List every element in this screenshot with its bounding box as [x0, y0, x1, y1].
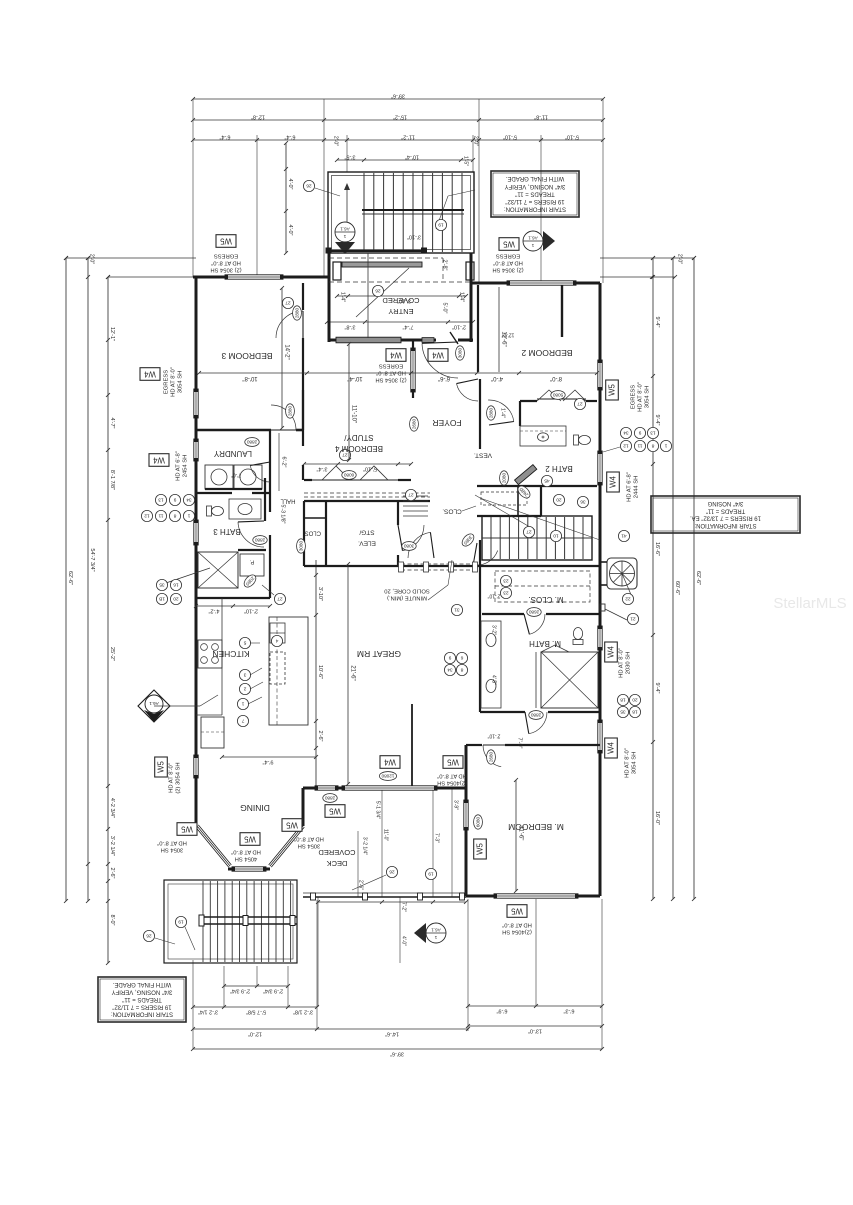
svg-text:STAIR INFORMATION:: STAIR INFORMATION: — [111, 1011, 173, 1017]
svg-text:2'-10": 2'-10" — [452, 323, 466, 329]
svg-text:A6.1: A6.1 — [431, 927, 441, 932]
dim right 2'-0 top — [600, 257, 694, 259]
svg-text:27: 27 — [526, 529, 532, 535]
entry stair leader 19 — [436, 196, 448, 229]
dim bedroom2 height 12'-6 — [498, 287, 500, 372]
hall west wall — [269, 430, 271, 512]
svg-text:1'-4": 1'-4" — [459, 292, 465, 302]
svg-text:HD AT 6'-8": HD AT 6'-8" — [176, 451, 182, 481]
svg-text:3/4" NOSING, VERIFY: 3/4" NOSING, VERIFY — [112, 989, 173, 995]
svg-text:4'-0": 4'-0" — [287, 179, 293, 190]
svg-text:5080: 5080 — [552, 393, 563, 398]
opening 6080 study — [312, 479, 398, 481]
svg-text:9: 9 — [638, 430, 641, 436]
kitchen island — [269, 617, 308, 725]
svg-text:STAIR INFORMATION:: STAIR INFORMATION: — [694, 522, 756, 528]
dim 62'-6 right outer — [693, 258, 695, 899]
spec 3054 right2 rot — [625, 748, 638, 778]
svg-text:BATH 2: BATH 2 — [545, 464, 573, 473]
window bath3 west — [194, 520, 198, 545]
svg-text:(2)4054 SH: (2)4054 SH — [502, 928, 532, 934]
svg-text:A6.1: A6.1 — [149, 701, 159, 706]
dim deck stairs 2'-9 3/4 x2 — [224, 985, 288, 987]
svg-text:16'-6": 16'-6" — [654, 542, 660, 556]
svg-text:6080: 6080 — [475, 816, 480, 827]
svg-text:HD AT 8'-0": HD AT 8'-0" — [171, 367, 177, 397]
m.bath sinks — [486, 634, 496, 647]
svg-text:M. CLOS.: M. CLOS. — [528, 595, 563, 604]
svg-text:35: 35 — [620, 709, 626, 715]
entry dashed lines — [329, 257, 443, 259]
leader deck 26 — [352, 875, 386, 890]
note circles m.bath shower — [617, 694, 628, 705]
note circles deck — [386, 866, 397, 877]
interior stair leaders — [475, 495, 535, 530]
closet shelf dashed clos — [481, 492, 527, 505]
svg-text:HD AT 8'-0": HD AT 8'-0" — [619, 648, 625, 678]
spec deck door — [437, 772, 467, 785]
dim left 2'-0 top — [66, 257, 196, 259]
svg-text:2'-6": 2'-6" — [109, 868, 115, 879]
svg-text:3080: 3080 — [457, 347, 462, 358]
dim bedroom4 row 3'-4/5'-10 — [304, 463, 411, 465]
window master bath east — [598, 626, 602, 650]
entry stair arrow — [346, 185, 348, 246]
svg-text:41: 41 — [621, 533, 627, 539]
svg-text:11'-6": 11'-6" — [517, 826, 523, 841]
svg-text:2: 2 — [243, 686, 246, 692]
svg-text:P.: P. — [249, 559, 254, 565]
svg-text:9'-4": 9'-4" — [654, 317, 660, 328]
svg-text:4'-0": 4'-0" — [401, 936, 407, 946]
bath2 5080 mulled window — [537, 398, 586, 400]
svg-text:W4: W4 — [606, 645, 615, 657]
svg-text:W5: W5 — [510, 907, 522, 916]
dim extension lines top — [192, 99, 194, 277]
svg-text:3'-10": 3'-10" — [317, 587, 323, 601]
svg-text:3054 SH: 3054 SH — [161, 846, 184, 852]
svg-text:9'-4": 9'-4" — [654, 683, 660, 694]
svg-text:2'-0": 2'-0" — [89, 254, 95, 264]
dim kitchen column 3'-10/10'-6/2'-6 — [315, 560, 317, 786]
m.bath tub deco — [535, 652, 537, 708]
great room door arc — [408, 532, 430, 558]
svg-text:BEDROOM 3: BEDROOM 3 — [221, 351, 272, 361]
svg-text:W5: W5 — [502, 240, 514, 249]
svg-text:18: 18 — [632, 709, 638, 715]
dim entry-left 4'-0/4'-0 — [285, 143, 287, 253]
spec 3054 left rot — [164, 367, 184, 397]
svg-text:W5: W5 — [243, 835, 255, 844]
foyer west wall — [412, 340, 414, 348]
wall laundry/bath3 — [196, 492, 232, 494]
dim row 3'-5/10'-4 — [337, 159, 473, 161]
note circle 27 pantry — [274, 593, 285, 604]
dim entry small row — [337, 295, 466, 297]
entry egress marker — [535, 244, 537, 246]
svg-text:31: 31 — [454, 607, 460, 613]
svg-text:HD AT 8'-0": HD AT 8'-0" — [211, 259, 241, 265]
bedroom2 door arc — [488, 400, 514, 422]
window (2)4054 master bedroom south — [494, 894, 578, 898]
bay east wall — [302, 788, 305, 826]
svg-text:2680: 2680 — [411, 418, 416, 429]
svg-text:HD AT 8'-0": HD AT 8'-0" — [625, 748, 631, 778]
foyer east wall / bedroom2 west — [477, 285, 479, 372]
svg-text:7'-3": 7'-3" — [434, 833, 440, 843]
svg-text:2880: 2880 — [530, 713, 541, 718]
svg-text:W5: W5 — [180, 825, 192, 834]
svg-text:12: 12 — [623, 443, 629, 449]
svg-text:2880: 2880 — [488, 407, 493, 418]
laundry counter — [205, 488, 262, 490]
svg-text:2'-0": 2'-0" — [473, 136, 479, 146]
svg-text:36: 36 — [580, 499, 586, 505]
svg-text:3080: 3080 — [298, 540, 303, 551]
svg-text:5: 5 — [243, 640, 246, 646]
front door arc — [422, 343, 458, 378]
dim 54'-7 3/4 left — [87, 258, 89, 901]
svg-text:7: 7 — [241, 718, 244, 724]
svg-text:26: 26 — [306, 183, 312, 189]
svg-text:19: 19 — [428, 871, 434, 877]
svg-text:10: 10 — [553, 533, 559, 539]
spec 2444 right rot — [627, 472, 640, 502]
svg-text:3054 SH: 3054 SH — [298, 842, 321, 848]
bath3 vanity — [229, 499, 261, 519]
svg-text:M. BATH: M. BATH — [529, 639, 561, 648]
m.bath shower — [541, 652, 598, 708]
svg-text:3054 SH: 3054 SH — [178, 371, 184, 394]
svg-text:2'-8": 2'-8" — [442, 260, 448, 271]
svg-text:CLOS.: CLOS. — [303, 529, 321, 535]
svg-text:27: 27 — [285, 300, 291, 306]
hall open rail dashed — [401, 563, 475, 565]
svg-text:34: 34 — [186, 497, 192, 503]
m.bath vanity — [481, 621, 501, 708]
svg-text:2080: 2080 — [501, 472, 506, 483]
window bath2 east — [598, 451, 602, 485]
svg-text:CLOS.: CLOS. — [442, 507, 462, 514]
leader to 21 — [605, 609, 627, 620]
svg-text:DECK: DECK — [327, 859, 348, 868]
laundry door arc — [250, 466, 270, 483]
svg-text:23: 23 — [503, 590, 509, 596]
exterior wall top-right — [471, 282, 507, 285]
stair info box bottom — [98, 977, 186, 1022]
bath2 north wall — [520, 400, 537, 402]
svg-text:HD AT 8'-0": HD AT 8'-0" — [437, 772, 467, 778]
deck door 2880 — [315, 786, 338, 790]
great room beam line — [411, 704, 413, 786]
svg-text:19: 19 — [438, 222, 444, 228]
front wall with door and sidelite — [329, 339, 336, 342]
vest door 2880 arc — [457, 384, 479, 401]
svg-text:6080: 6080 — [343, 473, 354, 478]
dim bottom right 6'-9 / 6'-3 — [468, 1005, 602, 1007]
deck stair handrail — [203, 916, 297, 918]
bath3 toilet — [207, 506, 224, 516]
svg-text:11'-2": 11'-2" — [401, 133, 415, 139]
junction box on wall — [600, 604, 605, 611]
svg-text:COVERED: COVERED — [382, 296, 420, 305]
svg-text:13: 13 — [158, 497, 164, 503]
svg-text:5'-0": 5'-0" — [442, 303, 448, 314]
svg-text:5'-7 5/8": 5'-7 5/8" — [246, 1008, 266, 1014]
oval tags — [293, 306, 302, 320]
bedroom3 door arc NE — [276, 311, 303, 338]
svg-text:39'-6": 39'-6" — [390, 1050, 404, 1056]
svg-text:1: 1 — [531, 243, 534, 248]
svg-text:3'-4": 3'-4" — [316, 465, 327, 471]
window 3054 top-right — [507, 281, 576, 285]
wall bedroom3 east — [302, 283, 304, 310]
svg-text:3'-9": 3'-9" — [453, 800, 459, 810]
spec 2030 right rot — [619, 648, 632, 678]
svg-text:BEDROOM 2: BEDROOM 2 — [521, 348, 572, 358]
svg-text:HD AT 8'-0": HD AT 8'-0" — [231, 848, 261, 854]
svg-text:HD AT 8'-0": HD AT 8'-0" — [493, 259, 523, 265]
svg-text:19 RISERS = 7 13/32" EA.: 19 RISERS = 7 13/32" EA. — [690, 515, 761, 521]
section marker entry right — [523, 231, 543, 251]
svg-text:23: 23 — [503, 578, 509, 584]
svg-text:9'-4": 9'-4" — [262, 758, 273, 764]
dim row 12'-8/15'-2/11'-8 — [193, 119, 603, 121]
svg-text:3054 SH: 3054 SH — [632, 752, 638, 775]
svg-text:W4: W4 — [606, 741, 615, 753]
svg-text:60'-6": 60'-6" — [674, 581, 680, 595]
svg-text:EGRESS: EGRESS — [379, 362, 403, 368]
svg-text:3: 3 — [243, 672, 246, 678]
svg-text:W5: W5 — [219, 237, 231, 246]
svg-text:HD AT 8'-0": HD AT 8'-0" — [169, 763, 175, 793]
svg-text:27: 27 — [577, 401, 583, 407]
svg-text:21: 21 — [630, 616, 636, 622]
svg-text:ELEV.: ELEV. — [358, 539, 376, 546]
north/section marker kitchen — [138, 690, 170, 722]
m.bath south wall — [480, 711, 525, 713]
dim bedroom3 height 14'-2 — [281, 288, 283, 428]
svg-text:4054 SH: 4054 SH — [235, 855, 258, 861]
bath3 sink — [238, 504, 252, 515]
exterior wall top-left — [193, 276, 225, 279]
dim deck stairs row 3'-2/5'-7/3'-2 — [193, 1006, 317, 1008]
svg-text:12'-0": 12'-0" — [501, 332, 514, 338]
wall m.bath west — [479, 614, 481, 712]
fan wall stubs — [600, 561, 607, 563]
stair info box top — [491, 171, 579, 217]
svg-text:2680: 2680 — [528, 610, 539, 615]
svg-text:1'-5": 1'-5" — [463, 156, 469, 166]
entry leader 26 diagonal — [356, 268, 409, 317]
note circles deck stair — [175, 916, 186, 927]
svg-text:45: 45 — [544, 478, 550, 484]
window 12080 great room south — [342, 786, 437, 790]
entry east wall — [470, 253, 473, 342]
svg-text:7'-0": 7'-0" — [231, 472, 241, 478]
svg-text:5'-10": 5'-10" — [565, 133, 579, 139]
closet by vest / bath2 south wall — [477, 485, 597, 487]
svg-text:(2) 3054 SH: (2) 3054 SH — [176, 762, 182, 793]
kitchen dishwasher — [270, 652, 285, 684]
svg-text:2'-10": 2'-10" — [487, 733, 500, 739]
svg-text:HD AT 6'-8": HD AT 6'-8" — [627, 472, 633, 502]
svg-text:1'-4": 1'-4" — [340, 292, 346, 302]
bath3 wall hall side — [264, 478, 266, 521]
svg-text:4'-2 3/4": 4'-2 3/4" — [109, 798, 115, 818]
dim right column 9'-4 / 16'-6 / 16'-0 — [652, 258, 654, 899]
window bedroom2 east — [598, 360, 602, 390]
bath2 door diagonal leaf — [515, 465, 537, 485]
svg-text:39'-6": 39'-6" — [391, 92, 405, 98]
svg-text:W5: W5 — [285, 821, 297, 830]
svg-text:EGRESS: EGRESS — [164, 370, 170, 394]
stair bottom rail — [329, 250, 424, 252]
svg-text:StellarMLS: StellarMLS — [773, 595, 846, 612]
dim kitchen top 4'-2 / 2'-10 — [196, 605, 270, 607]
bath2 toilet — [574, 435, 591, 445]
svg-text:3'-2 1/4": 3'-2 1/4" — [362, 837, 368, 856]
sliding door master bedroom to deck — [464, 800, 468, 830]
svg-text:34: 34 — [447, 667, 453, 673]
dim connector left — [108, 276, 196, 278]
svg-text:14'-2": 14'-2" — [283, 344, 289, 359]
svg-text:3'-8": 3'-8" — [344, 323, 355, 329]
svg-text:(2) 3054 SH: (2) 3054 SH — [375, 376, 406, 382]
svg-text:W5: W5 — [328, 807, 340, 816]
svg-text:2'-6": 2'-6" — [317, 731, 323, 742]
svg-text:9: 9 — [173, 497, 176, 503]
wall bath3/kitchen — [196, 597, 270, 599]
svg-text:4'-0": 4'-0" — [287, 225, 293, 236]
svg-text:8: 8 — [173, 513, 176, 519]
svg-text:TREADS = 11": TREADS = 11" — [706, 507, 746, 513]
spec 3054 right rot — [631, 382, 651, 412]
kitchen note circles — [239, 637, 250, 648]
window master bedroom east — [598, 720, 602, 753]
front sidelite window — [336, 337, 401, 343]
svg-text:TREADS = 11": TREADS = 11" — [122, 996, 162, 1002]
svg-text:8'-1 7/8": 8'-1 7/8" — [109, 470, 115, 490]
svg-text:11'-8": 11'-8" — [534, 113, 548, 119]
dim bottom 13'-0 — [468, 1025, 602, 1027]
svg-text:2880: 2880 — [287, 405, 292, 416]
svg-text:2'-9 3/4": 2'-9 3/4" — [230, 987, 250, 993]
svg-text:BATH 3: BATH 3 — [213, 527, 241, 536]
svg-text:(2) 3054 SH: (2) 3054 SH — [492, 266, 523, 272]
room dim row 10'-8 / 10'-4 / 6'-6 / 4'-0 / 8'-0 — [199, 372, 597, 374]
svg-text:2454 SH: 2454 SH — [183, 455, 189, 478]
solid core note — [384, 587, 429, 600]
svg-text:GREAT RM: GREAT RM — [357, 649, 401, 659]
svg-text:2'-0": 2'-0" — [333, 136, 339, 146]
svg-text:4'-2": 4'-2" — [208, 608, 219, 614]
svg-text:2444 SH: 2444 SH — [634, 476, 640, 499]
svg-text:1'-4": 1'-4" — [500, 408, 506, 418]
svg-text:15'-2": 15'-2" — [393, 113, 407, 119]
pantry P. — [240, 554, 264, 576]
svg-text:25'-2": 25'-2" — [109, 647, 115, 661]
svg-text:16'-0": 16'-0" — [654, 811, 660, 825]
svg-text:19 RISERS = 7 11/32": 19 RISERS = 7 11/32" — [505, 198, 564, 204]
svg-text:KITCHEN: KITCHEN — [212, 649, 249, 659]
solid core leader — [428, 585, 448, 600]
svg-text:27: 27 — [277, 596, 283, 602]
svg-text:8'-0": 8'-0" — [109, 915, 115, 926]
window (2)3054 top-left egress — [225, 275, 283, 279]
bath3 door arc — [238, 522, 264, 547]
svg-text:2030 SH: 2030 SH — [626, 652, 632, 675]
svg-text:10'-8": 10'-8" — [242, 375, 257, 381]
svg-text:22: 22 — [625, 596, 631, 602]
bedroom4 south wall with 6080 opening — [304, 479, 312, 481]
svg-text:2680: 2680 — [488, 751, 493, 762]
svg-text:11: 11 — [637, 443, 642, 449]
svg-text:8: 8 — [460, 667, 463, 673]
svg-text:26: 26 — [146, 933, 152, 939]
east exterior wall — [599, 283, 602, 360]
m.clos south wall — [482, 613, 524, 615]
dim row 6'-4 etc — [193, 139, 603, 141]
fan leader to 22 — [622, 574, 632, 598]
svg-text:4'-7": 4'-7" — [109, 418, 115, 429]
svg-text:2880: 2880 — [294, 307, 299, 318]
window spec texts — [210, 252, 241, 272]
shower leader — [160, 568, 210, 585]
svg-text:62'-6": 62'-6" — [67, 571, 73, 585]
svg-text:M. BEDROOM: M. BEDROOM — [508, 822, 564, 832]
svg-text:WITH FINAL GRADE.: WITH FINAL GRADE. — [112, 981, 171, 987]
svg-text:3'-2 1/4": 3'-2 1/4" — [198, 1008, 218, 1014]
svg-text:3080: 3080 — [403, 544, 414, 549]
svg-text:W4: W4 — [389, 351, 401, 360]
svg-text:W4: W4 — [431, 351, 443, 360]
svg-text:W4: W4 — [383, 758, 395, 767]
svg-text:27: 27 — [408, 492, 414, 498]
svg-text:1: 1 — [343, 234, 346, 239]
section marker deck — [426, 923, 446, 943]
kitchen fridge — [201, 717, 224, 748]
note circles bath3 — [156, 579, 167, 590]
svg-text:W5: W5 — [607, 383, 616, 395]
svg-text:2880: 2880 — [254, 538, 265, 543]
svg-text:HD AT 8'-0": HD AT 8'-0" — [376, 369, 406, 375]
entry west wall — [328, 253, 331, 342]
window foyer sidelite — [411, 348, 415, 392]
svg-text:11'-10": 11'-10" — [350, 405, 356, 423]
svg-text:STAIR INFORMATION:: STAIR INFORMATION: — [504, 206, 566, 212]
dim 39'-6 bottom overall — [193, 1048, 602, 1050]
svg-text:2'-0": 2'-0" — [677, 254, 683, 264]
bath2 sink — [538, 433, 549, 441]
porch columns — [333, 262, 341, 280]
svg-text:3'-5": 3'-5" — [344, 153, 355, 159]
svg-text:COVERED: COVERED — [318, 848, 356, 857]
svg-text:8'-0": 8'-0" — [550, 375, 562, 381]
washer dryer — [205, 465, 233, 489]
svg-text:9: 9 — [448, 655, 451, 661]
svg-text:HD AT 8'-0": HD AT 8'-0" — [157, 839, 187, 845]
leader deck stair — [155, 938, 175, 944]
svg-text:20: 20 — [173, 596, 179, 602]
svg-text:W5: W5 — [156, 760, 165, 772]
svg-text:3054 SH: 3054 SH — [645, 386, 651, 409]
bath2 west wall stub — [519, 401, 521, 426]
svg-text:W5: W5 — [475, 842, 484, 854]
note circles m.clos — [500, 575, 511, 586]
svg-text:2'-9 3/4": 2'-9 3/4" — [263, 987, 283, 993]
dim 9'-4 kitchen width — [222, 756, 316, 758]
